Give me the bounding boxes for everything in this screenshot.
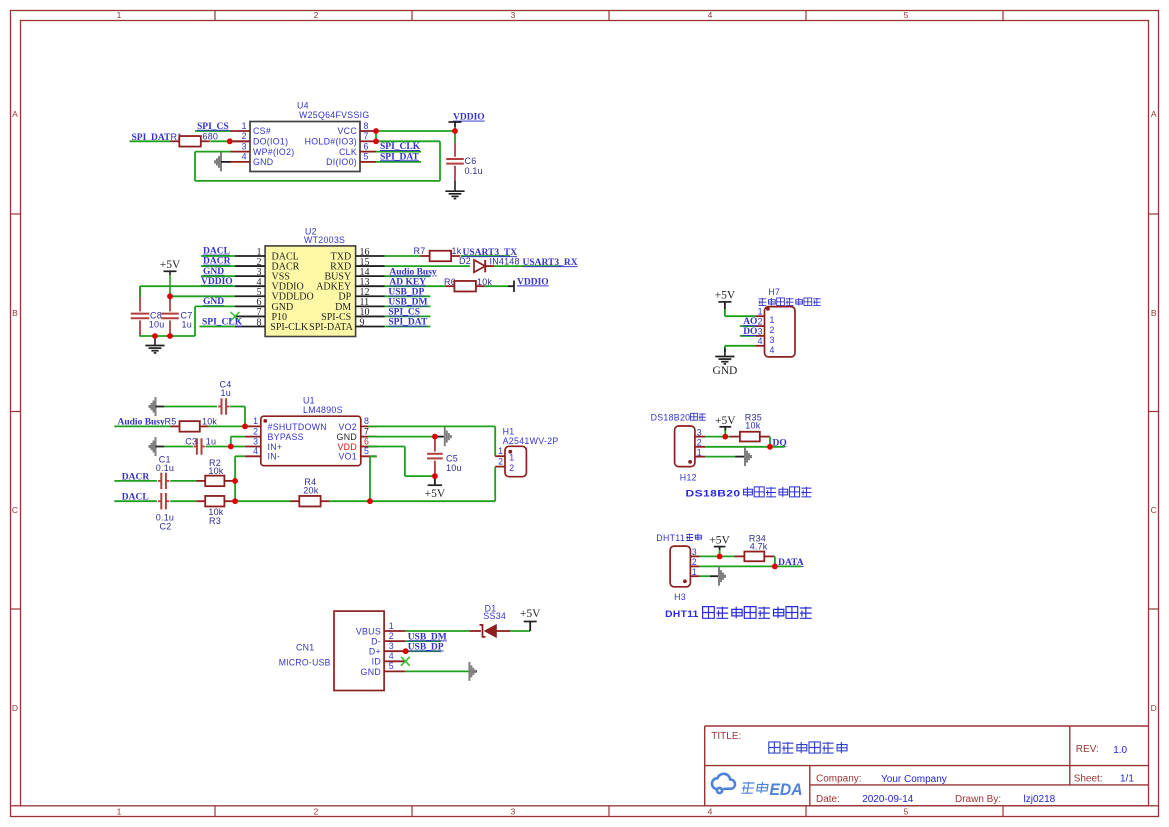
svg-text:Your Company: Your Company xyxy=(881,774,947,785)
svg-text:WT2003S: WT2003S xyxy=(304,235,345,245)
svg-text:1: 1 xyxy=(692,567,697,577)
svg-text:REV:: REV: xyxy=(1076,744,1099,755)
svg-text:DO: DO xyxy=(743,327,757,337)
svg-text:VDDIO: VDDIO xyxy=(517,277,549,287)
svg-text:7: 7 xyxy=(364,131,369,141)
svg-text:10u: 10u xyxy=(149,320,165,330)
svg-text:1: 1 xyxy=(770,315,775,325)
svg-text:2020-09-14: 2020-09-14 xyxy=(862,794,914,805)
svg-text:HOLD#(IO3): HOLD#(IO3) xyxy=(305,137,357,147)
svg-text:AO: AO xyxy=(743,317,757,327)
svg-text:AD KEY: AD KEY xyxy=(389,278,426,288)
svg-text:USB_DM: USB_DM xyxy=(388,298,427,308)
svg-text:8: 8 xyxy=(257,317,262,328)
svg-text:GND: GND xyxy=(253,157,273,167)
svg-text:7: 7 xyxy=(364,426,369,436)
svg-text:CS#: CS# xyxy=(253,126,271,136)
svg-text:1k: 1k xyxy=(452,246,462,256)
svg-text:LM4890S: LM4890S xyxy=(303,405,343,415)
svg-text:1u: 1u xyxy=(221,388,231,398)
svg-text:H12: H12 xyxy=(680,473,697,483)
svg-text:H7: H7 xyxy=(768,287,780,297)
svg-text:WP#(IO2): WP#(IO2) xyxy=(253,147,295,157)
svg-text:C: C xyxy=(12,505,18,515)
svg-text:3: 3 xyxy=(697,427,702,437)
svg-text:SPI_DAT: SPI_DAT xyxy=(388,318,428,328)
svg-text:VO2: VO2 xyxy=(338,422,357,432)
svg-text:4: 4 xyxy=(389,651,394,661)
svg-text:D: D xyxy=(1151,703,1157,713)
svg-text:3: 3 xyxy=(770,335,775,345)
svg-text:A: A xyxy=(1151,109,1157,119)
svg-text:1: 1 xyxy=(253,416,258,426)
svg-text:1: 1 xyxy=(697,447,702,457)
svg-text:5: 5 xyxy=(389,661,394,671)
svg-text:Date:: Date: xyxy=(816,794,840,805)
svg-text:B: B xyxy=(1151,308,1157,318)
svg-text:5: 5 xyxy=(364,446,369,456)
svg-text:GND: GND xyxy=(337,432,357,442)
svg-text:R5: R5 xyxy=(165,416,177,426)
svg-text:IN4148: IN4148 xyxy=(490,257,520,267)
svg-text:R3: R3 xyxy=(209,516,221,526)
svg-text:1: 1 xyxy=(242,121,247,131)
svg-text:R7: R7 xyxy=(414,246,426,256)
svg-text:2: 2 xyxy=(509,463,514,473)
svg-text:GND: GND xyxy=(203,267,224,277)
svg-text:+5V: +5V xyxy=(715,289,736,301)
svg-text:lzj0218: lzj0218 xyxy=(1024,794,1056,805)
svg-text:C6: C6 xyxy=(465,156,477,166)
svg-text:2: 2 xyxy=(242,131,247,141)
svg-text:3: 3 xyxy=(242,141,247,151)
svg-text:VCC: VCC xyxy=(338,126,358,136)
svg-text:1: 1 xyxy=(498,446,503,456)
svg-text:4: 4 xyxy=(253,446,258,456)
svg-text:SPI_CS: SPI_CS xyxy=(197,122,229,132)
svg-text:10k: 10k xyxy=(745,421,760,431)
svg-text:1: 1 xyxy=(758,307,763,317)
svg-text:2: 2 xyxy=(692,557,697,567)
svg-text:10k: 10k xyxy=(477,277,492,287)
svg-text:3: 3 xyxy=(758,326,763,336)
svg-text:1/1: 1/1 xyxy=(1120,774,1134,785)
svg-text:Audio Busy: Audio Busy xyxy=(389,267,437,277)
svg-text:VDD: VDD xyxy=(338,442,357,452)
svg-text:6: 6 xyxy=(364,436,369,446)
svg-text:USB_DP: USB_DP xyxy=(388,288,424,298)
svg-text:1u: 1u xyxy=(206,436,216,446)
svg-text:2: 2 xyxy=(758,317,763,327)
svg-text:+5V: +5V xyxy=(425,488,446,500)
svg-text:4.7k: 4.7k xyxy=(750,542,768,552)
svg-text:3: 3 xyxy=(511,807,516,817)
svg-text:EDA: EDA xyxy=(770,780,803,799)
svg-text:5: 5 xyxy=(904,10,909,20)
svg-text:USART3_RX: USART3_RX xyxy=(523,258,578,268)
svg-text:3: 3 xyxy=(511,10,516,20)
svg-text:C: C xyxy=(1151,505,1157,515)
svg-text:U1: U1 xyxy=(303,396,315,406)
svg-text:A: A xyxy=(12,109,18,119)
svg-text:3: 3 xyxy=(692,547,697,557)
svg-text:#SHUTDOWN: #SHUTDOWN xyxy=(268,422,327,432)
svg-text:2: 2 xyxy=(770,325,775,335)
svg-text:4: 4 xyxy=(242,152,247,162)
svg-text:BYPASS: BYPASS xyxy=(268,432,304,442)
svg-text:0.1u: 0.1u xyxy=(156,463,174,473)
svg-text:Company:: Company: xyxy=(816,774,862,785)
svg-text:H3: H3 xyxy=(674,592,686,602)
svg-text:2: 2 xyxy=(314,10,319,20)
svg-text:ID: ID xyxy=(372,657,381,667)
svg-text:3: 3 xyxy=(253,436,258,446)
svg-text:IN-: IN- xyxy=(268,452,281,462)
svg-text:1: 1 xyxy=(117,807,122,817)
svg-text:CN1: CN1 xyxy=(296,643,315,653)
svg-text:5: 5 xyxy=(904,807,909,817)
svg-text:2: 2 xyxy=(697,438,702,448)
svg-text:C2: C2 xyxy=(160,521,172,531)
svg-text:VDDIO: VDDIO xyxy=(453,113,485,123)
svg-text:+5V: +5V xyxy=(160,259,181,271)
svg-text:8: 8 xyxy=(364,416,369,426)
svg-text:10u: 10u xyxy=(446,463,462,473)
svg-text:VBUS: VBUS xyxy=(356,626,381,636)
svg-text:6: 6 xyxy=(364,141,369,151)
svg-text:4: 4 xyxy=(770,345,775,355)
svg-text:D2: D2 xyxy=(459,256,471,266)
svg-text:5: 5 xyxy=(364,152,369,162)
svg-text:+5V: +5V xyxy=(715,415,736,427)
svg-text:DI(IO0): DI(IO0) xyxy=(326,157,357,167)
svg-text:4: 4 xyxy=(708,807,713,817)
svg-text:SS34: SS34 xyxy=(483,611,506,621)
svg-text:USB_DM: USB_DM xyxy=(408,632,447,642)
svg-text:VO1: VO1 xyxy=(338,452,357,462)
svg-text:CLK: CLK xyxy=(339,147,357,157)
svg-text:Sheet:: Sheet: xyxy=(1074,773,1103,784)
svg-text:1: 1 xyxy=(389,621,394,631)
svg-text:DHT11: DHT11 xyxy=(665,609,699,619)
svg-text:A2541WV-2P: A2541WV-2P xyxy=(503,436,559,446)
svg-text:1u: 1u xyxy=(182,320,192,330)
svg-text:20k: 20k xyxy=(303,486,318,496)
svg-text:DHT11: DHT11 xyxy=(656,533,685,543)
svg-text:IN+: IN+ xyxy=(268,442,283,452)
svg-text:USB_DP: USB_DP xyxy=(408,643,444,653)
svg-text:680: 680 xyxy=(203,132,219,142)
svg-text:SPI_CLK: SPI_CLK xyxy=(380,142,421,152)
svg-text:DS18B20: DS18B20 xyxy=(651,412,691,422)
svg-text:DO(IO1): DO(IO1) xyxy=(253,137,288,147)
svg-text:1: 1 xyxy=(117,10,122,20)
svg-text:4: 4 xyxy=(708,10,713,20)
svg-text:C5: C5 xyxy=(446,454,458,464)
svg-text:C3: C3 xyxy=(185,436,197,446)
svg-text:MICRO-USB: MICRO-USB xyxy=(279,658,331,668)
svg-text:4: 4 xyxy=(758,336,763,346)
svg-text:D+: D+ xyxy=(369,647,381,657)
svg-text:B: B xyxy=(12,308,18,318)
svg-text:Drawn By:: Drawn By: xyxy=(955,794,1001,805)
svg-text:+5V: +5V xyxy=(520,608,541,620)
svg-text:2: 2 xyxy=(314,807,319,817)
svg-text:2: 2 xyxy=(253,426,258,436)
svg-text:SPI-DATA: SPI-DATA xyxy=(309,322,353,333)
svg-text:GND: GND xyxy=(361,667,381,677)
svg-text:1.0: 1.0 xyxy=(1113,745,1127,756)
svg-text:SPI_DAT: SPI_DAT xyxy=(380,152,420,162)
svg-text:8: 8 xyxy=(364,121,369,131)
svg-text:10k: 10k xyxy=(202,416,217,426)
svg-text:0.1u: 0.1u xyxy=(465,166,483,176)
svg-text:2: 2 xyxy=(389,631,394,641)
svg-text:D: D xyxy=(12,703,18,713)
svg-text:GND: GND xyxy=(712,365,737,377)
svg-text:SPI-CLK: SPI-CLK xyxy=(270,322,309,333)
svg-text:W25Q64FVSSIG: W25Q64FVSSIG xyxy=(299,110,370,120)
svg-text:SPI_CS: SPI_CS xyxy=(388,308,420,318)
svg-text:D-: D- xyxy=(371,637,381,647)
svg-text:+5V: +5V xyxy=(709,534,730,546)
svg-text:TITLE:: TITLE: xyxy=(711,731,741,742)
svg-text:3: 3 xyxy=(389,641,394,651)
svg-text:DS18B20: DS18B20 xyxy=(686,489,741,499)
svg-text:2: 2 xyxy=(498,456,503,466)
svg-text:10k: 10k xyxy=(208,466,223,476)
svg-text:9: 9 xyxy=(360,317,365,328)
svg-text:1: 1 xyxy=(509,452,514,462)
